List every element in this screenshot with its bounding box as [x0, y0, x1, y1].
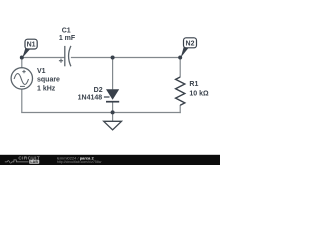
- svg-text:V1: V1: [37, 68, 46, 75]
- node flag N1 pointer wedge: [22, 47, 30, 58]
- voltage source V1 circle: [11, 68, 32, 89]
- node flag N2 box: [184, 38, 197, 48]
- diode D2 anode triangle: [106, 89, 119, 100]
- footer CircuitLab logo LAB box: [29, 160, 39, 164]
- wire top right: C1 right plate to N2 corner: [71, 57, 180, 59]
- wire left vertical: N1 node down to V1 top terminal: [21, 58, 23, 68]
- junction node dot diode top: [111, 56, 115, 60]
- svg-text:1 mF: 1 mF: [59, 35, 76, 42]
- wire top left: N1 node to C1 left plate: [22, 57, 65, 59]
- capacitor C1 right curved plate: [69, 46, 71, 66]
- svg-text:square: square: [37, 77, 60, 84]
- wire diode branch: D2 cathode to bottom rail: [112, 102, 114, 113]
- wire right vertical: R1 bottom to bottom rail: [179, 105, 181, 113]
- wire diode branch: top rail to D2 anode: [112, 58, 114, 90]
- svg-text:http://circuitlab.com/c/z756w: http://circuitlab.com/c/z756w: [57, 160, 102, 164]
- wire left vertical: V1 bottom terminal to bottom rail: [21, 89, 23, 113]
- voltage source V1 sine wave: [14, 74, 28, 85]
- capacitor C1 left plate: [64, 46, 66, 66]
- wire bottom rail: [21, 112, 181, 114]
- node flag N1 box: [25, 39, 37, 49]
- ground symbol: [104, 121, 122, 130]
- svg-text:N2: N2: [186, 40, 195, 47]
- voltage source V1 plus sign: [22, 70, 25, 73]
- svg-text:R1: R1: [189, 81, 198, 88]
- diode D2 label leader dash: [104, 96, 110, 98]
- junction node dot at N1: [20, 56, 24, 60]
- svg-text:LAB: LAB: [30, 160, 38, 164]
- voltage source V1 minus sign: [20, 85, 25, 87]
- svg-text:1N4148: 1N4148: [78, 94, 103, 101]
- footer black bar: [0, 155, 220, 165]
- diode D2 cathode bar: [106, 101, 119, 103]
- footer CircuitLab logo waveform: [5, 160, 29, 163]
- junction node dot diode bottom: [111, 110, 115, 114]
- wire ground stub: [112, 113, 114, 122]
- svg-text:10 kΩ: 10 kΩ: [189, 90, 209, 97]
- junction node dot at N2: [178, 56, 182, 60]
- svg-text:D2: D2: [94, 87, 103, 94]
- svg-text:1 kHz: 1 kHz: [37, 85, 56, 92]
- resistor R1 zigzag: [176, 77, 185, 105]
- capacitor C1 plus polarity mark: [59, 59, 63, 63]
- svg-text:C1: C1: [62, 28, 71, 35]
- wire right vertical: N2 corner down to R1 top: [179, 58, 181, 78]
- node flag N2 pointer wedge: [181, 46, 189, 58]
- svg-text:N1: N1: [27, 42, 36, 49]
